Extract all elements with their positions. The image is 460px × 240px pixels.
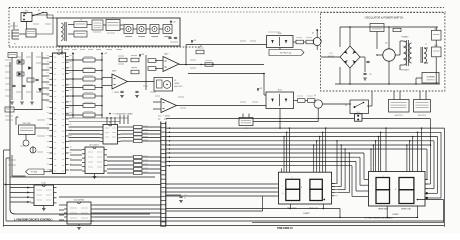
svg-text:(SEE TEXT): (SEE TEXT) — [426, 80, 435, 82]
svg-text:U2: U2 — [174, 80, 176, 82]
svg-text:TO S5B: TO S5B — [31, 172, 38, 174]
svg-text:TIME DISPLAY: TIME DISPLAY — [277, 227, 293, 230]
svg-text:TEMP LSD: TEMP LSD — [401, 208, 412, 210]
svg-text:(SEE TEXT): (SEE TEXT) — [395, 115, 404, 117]
svg-text:Q3: Q3 — [385, 43, 387, 45]
svg-text:Q2: Q2 — [314, 95, 316, 97]
svg-text:S4: S4 — [345, 105, 347, 107]
svg-text:U1A *: U1A * — [164, 53, 169, 56]
svg-text:(SEE TEXT): (SEE TEXT) — [174, 86, 183, 88]
svg-text:PL4: PL4 — [357, 112, 360, 114]
svg-text:U6: U6 — [112, 18, 114, 20]
svg-text:U1B *: U1B * — [112, 71, 117, 73]
svg-text:0.1: 0.1 — [184, 198, 186, 200]
svg-text:U9: U9 — [109, 122, 111, 124]
svg-text:TIME LSD: TIME LSD — [309, 208, 319, 210]
svg-text:U2-B LM3862: U2-B LM3862 — [74, 200, 84, 202]
svg-text:DISP2: DISP2 — [392, 214, 399, 216]
svg-text:T3: T3 — [80, 20, 82, 22]
svg-text:LM308: LM308 — [174, 83, 179, 85]
svg-text:OSCILLATOR & POWER SWITCH: OSCILLATOR & POWER SWITCH — [365, 17, 404, 20]
svg-text:Q1: Q1 — [312, 33, 314, 35]
svg-text:T1: T1 — [425, 44, 427, 46]
svg-text:4. SWITCH/DISPLAY BOARD: 4. SWITCH/DISPLAY BOARD — [365, 217, 393, 220]
svg-text:TRIP-TIME: TRIP-TIME — [23, 123, 31, 125]
svg-text:C32: C32 — [369, 74, 372, 76]
svg-text:C40: C40 — [184, 195, 187, 197]
svg-text:D21: D21 — [330, 53, 333, 55]
svg-text:TEMP MSD: TEMP MSD — [378, 208, 389, 210]
svg-text:DISP1: DISP1 — [303, 213, 310, 215]
svg-text:P3: P3 — [158, 119, 160, 121]
svg-text:(SEE TEXT): (SEE TEXT) — [418, 115, 427, 117]
svg-text:PL3: PL3 — [164, 119, 167, 121]
svg-text:* ¼ LM324 NOT USED: * ¼ LM324 NOT USED — [112, 113, 133, 116]
svg-text:PL2: PL2 — [25, 11, 28, 13]
svg-text:TIME MSD: TIME MSD — [287, 208, 297, 210]
svg-text:TO PIN 17 (Q): TO PIN 17 (Q) — [280, 52, 292, 54]
svg-text:P1: P1 — [14, 44, 16, 46]
svg-text:U1C * ¼ LM324: U1C * ¼ LM324 — [158, 115, 170, 118]
svg-text:CLEANER: CLEANER — [426, 76, 435, 79]
svg-text:U5: U5 — [58, 51, 60, 53]
svg-text:U10 CD4511: U10 CD4511 — [89, 145, 99, 147]
svg-text:S1: S1 — [38, 10, 40, 12]
svg-text:¼ LM324: ¼ LM324 — [112, 91, 119, 94]
